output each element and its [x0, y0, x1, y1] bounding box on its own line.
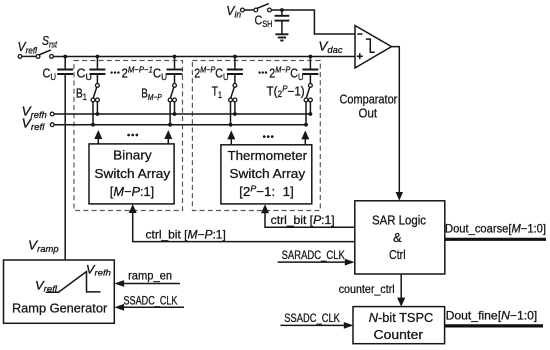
- svg-text:Dout_coarse[M−1:0]: Dout_coarse[M−1:0]: [445, 222, 546, 235]
- dashed box: binary capacitor bank: [74, 61, 183, 211]
- arrow: ctrl_bit [P:1] into thermometer array: [261, 204, 269, 213]
- switch S/H (Vin sampling switch): [241, 4, 272, 12]
- node: Vin/CSH junction: [280, 8, 284, 12]
- svg-text:[2P−1: 1]: [2P−1: 1]: [239, 184, 294, 200]
- label 2^(M-P-1) CU: [122, 65, 168, 82]
- arrow: counter_ctrl into counter: [397, 298, 405, 307]
- capacitor CU 1 (ramp cap): [57, 57, 73, 75]
- label SSADC_CLK (ramp): [124, 293, 178, 307]
- label B1: [76, 87, 87, 103]
- capacitor 2^(M-P-1)CU: [167, 57, 183, 84]
- svg-text:SARADC_CLK: SARADC_CLK: [282, 248, 345, 262]
- label counter_ctrl: [339, 282, 395, 296]
- ramp waveform: [46, 272, 101, 293]
- label Vrefl (top-left, at Srst): [18, 39, 38, 56]
- capacitor 2^(M-P)CU 1: [227, 57, 243, 84]
- dashed box: thermometer capacitor bank: [192, 61, 320, 211]
- ground (below CSH): [275, 34, 288, 40]
- arrow: thermometer array ctrl to Tlast: [301, 130, 309, 144]
- wire: Vrefl rail: [50, 123, 306, 127]
- arrow: binary array ctrl to B1: [94, 130, 102, 144]
- node: cap1 top: [63, 55, 67, 59]
- bus: Dout_fine: [445, 324, 543, 327]
- capacitor 2^(M-P)CU 2: [302, 57, 318, 84]
- node: BM-P on Vrefl: [168, 123, 172, 127]
- wire: Vramp vertical (cap1 bottom to ramp generator): [64, 75, 66, 260]
- arrow: thermometer array ctrl to T1: [227, 130, 235, 144]
- svg-text:counter_ctrl: counter_ctrl: [339, 282, 395, 296]
- label Vrefl (ramp waveform): [35, 280, 58, 293]
- wire: SARADC_CLK into SAR logic: [278, 259, 355, 266]
- switch T1: [229, 84, 237, 125]
- comparator U1: [355, 26, 392, 69]
- node: cap5 top: [309, 55, 313, 59]
- svg-text:Comparator: Comparator: [340, 91, 398, 106]
- label CU 1: [43, 67, 57, 83]
- block: N-bit TSPC Counter: [353, 307, 445, 344]
- svg-text:Ramp Generator: Ramp Generator: [12, 301, 108, 316]
- switch BM-P: [168, 84, 176, 125]
- wire: DAC top plate rail to comparator plus input: [54, 56, 355, 58]
- svg-text:Switch Array: Switch Array: [94, 166, 170, 181]
- label Vrefh (ramp waveform): [86, 264, 111, 277]
- capacitor CSH: [275, 10, 290, 34]
- arrow: binary array ctrl to BM-P: [164, 130, 172, 144]
- node: Tlast on Vrefh: [309, 112, 313, 116]
- label dots (thermometer ctrl ellipsis): [263, 135, 274, 138]
- wire: Vin node to comparator minus input: [272, 10, 356, 34]
- label ramp_en: [128, 269, 172, 283]
- label BM-P: [141, 87, 162, 103]
- svg-text:Binary: Binary: [113, 148, 152, 163]
- label Vrefl: [22, 115, 46, 132]
- svg-text:SSADC_CLK: SSADC_CLK: [124, 293, 178, 307]
- node: cap2 top: [96, 55, 100, 59]
- wire: SSADC_CLK into counter: [280, 322, 353, 329]
- wire: Vrefh rail: [50, 112, 310, 116]
- label Comparator Out: [340, 91, 398, 120]
- label Vramp: [28, 238, 59, 255]
- label T1: [212, 85, 222, 101]
- node: T1 on Vrefl: [229, 123, 233, 127]
- wire: ramp_en into ramp generator: [114, 280, 180, 287]
- node: B1 on Vrefh: [96, 112, 100, 116]
- label Dout_coarse: [445, 222, 546, 235]
- label T(2^P-1): [267, 84, 305, 100]
- block: Thermometer Switch Array: [221, 145, 312, 204]
- block: SAR Logic & Ctrl: [355, 201, 445, 274]
- svg-text:Out: Out: [359, 105, 378, 120]
- block: Binary Switch Array: [89, 144, 174, 204]
- node: B1 on Vrefl: [91, 123, 95, 127]
- svg-text:ramp_en: ramp_en: [128, 269, 172, 283]
- svg-text:[M−P:1]: [M−P:1]: [110, 184, 154, 199]
- svg-text:&: &: [393, 230, 402, 245]
- label CU 2: [77, 67, 93, 83]
- wire: ctrl_bit [P:1]: [265, 211, 355, 228]
- label dots (thermometer caps ellipsis): [258, 71, 267, 73]
- switch T(2^P-1): [304, 84, 312, 125]
- node: Tlast on Vrefl: [304, 123, 308, 127]
- wire: SSADC_CLK into ramp generator: [114, 304, 184, 311]
- label 2^(M-P) CU (first thermometer): [194, 65, 228, 82]
- label ctrl_bit [P:1]: [271, 213, 335, 227]
- node: BM-P on Vrefh: [173, 112, 177, 116]
- label dots (binary caps ellipsis): [110, 71, 119, 73]
- arrow: ctrl_bit [M-P:1] into binary array: [129, 204, 137, 213]
- label CSH: [255, 13, 273, 30]
- svg-text:Counter: Counter: [374, 327, 424, 342]
- node: cap3 top: [173, 55, 177, 59]
- label Vin: [226, 3, 241, 20]
- block: Ramp Generator: [4, 260, 115, 323]
- svg-text:SAR Logic: SAR Logic: [372, 213, 426, 228]
- svg-text:Thermometer: Thermometer: [228, 148, 308, 163]
- svg-text:Switch Array: Switch Array: [229, 166, 305, 181]
- label Srst: [42, 33, 57, 50]
- label Vdac: [318, 39, 343, 56]
- svg-text:Dout_fine[N−1:0]: Dout_fine[N−1:0]: [446, 309, 538, 323]
- label SARADC_CLK: [282, 248, 345, 262]
- arrow: into SAR logic top: [396, 192, 403, 201]
- svg-text:SSADC_CLK: SSADC_CLK: [284, 311, 340, 325]
- label Dout_fine: [446, 309, 538, 323]
- switch Srst: [18, 50, 53, 58]
- switch B1: [91, 84, 99, 125]
- label ctrl_bit [M-P:1]: [146, 227, 226, 241]
- wire: comparator output to SAR logic: [392, 47, 400, 194]
- wire: ctrl_bit [M-P:1]: [133, 209, 355, 241]
- svg-text:ctrl_bit [P:1]: ctrl_bit [P:1]: [271, 213, 335, 227]
- wire: counter_ctrl: [400, 274, 402, 299]
- capacitor CU 2: [89, 57, 105, 84]
- label SSADC_CLK (counter): [284, 311, 340, 325]
- label dots (binary ctrl ellipsis): [127, 134, 138, 137]
- node: cap4 top: [233, 55, 237, 59]
- svg-text:Ctrl: Ctrl: [389, 247, 406, 262]
- label 2^(M-P) CU (last thermometer): [269, 65, 303, 82]
- svg-text:N-bit TSPC: N-bit TSPC: [369, 310, 434, 325]
- node: T1 on Vrefh: [233, 112, 237, 116]
- svg-text:ctrl_bit [M−P:1]: ctrl_bit [M−P:1]: [146, 227, 226, 241]
- bus: Dout_coarse: [445, 238, 546, 241]
- label Vrefh: [22, 103, 47, 120]
